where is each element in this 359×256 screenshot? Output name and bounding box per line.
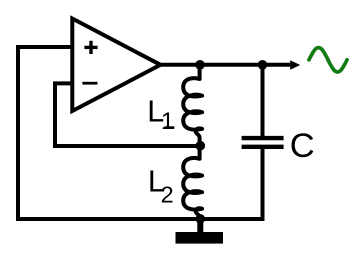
wire: non-inverting input loop (left side and bottom) xyxy=(18,47,263,219)
wire: inverting input feedback to L1/L2 tap xyxy=(55,83,200,146)
op-amp U1 xyxy=(72,19,160,112)
op-amp minus input label xyxy=(82,82,97,85)
capacitor C plates xyxy=(242,138,284,147)
wire: op-amp output xyxy=(161,63,291,67)
output arrowhead xyxy=(290,60,300,70)
node: tap junction between L1 and L2 xyxy=(196,141,206,151)
output sine wave symbol xyxy=(309,48,347,72)
op-amp plus input label xyxy=(84,41,97,54)
capacitor C top wire xyxy=(261,65,265,136)
ground stub xyxy=(197,219,203,233)
inductor L2 xyxy=(183,146,202,219)
node: ground junction on bottom wire xyxy=(196,214,206,224)
svg-text:2: 2 xyxy=(161,182,174,208)
node: output junction at L1 top xyxy=(195,60,205,70)
svg-text:1: 1 xyxy=(161,108,174,135)
svg-text:C: C xyxy=(290,127,315,165)
ground bar xyxy=(176,232,224,244)
node: output junction at capacitor branch xyxy=(258,60,268,70)
inductor L1 xyxy=(183,65,202,146)
